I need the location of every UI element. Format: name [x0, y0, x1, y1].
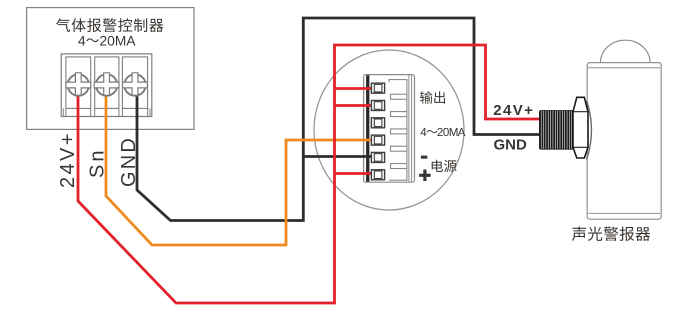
TB2 screw terminal 3: [371, 118, 384, 128]
alarm hex locknut: [573, 97, 588, 158]
label: transmitter power: [432, 160, 443, 172]
alarm gasket arc: [587, 101, 592, 160]
transmitter terminal block TB2 outer body: [364, 75, 415, 183]
TB2 screw terminal 6: [371, 170, 384, 180]
controller screw terminal 2: [94, 73, 119, 96]
TB1 bottom mounting slots: [63, 108, 150, 116]
svg-text:GND: GND: [494, 136, 528, 153]
label: transmitter range 4~20MA: [421, 128, 427, 136]
controller enclosure box: [27, 8, 194, 130]
svg-text:Sn: Sn: [86, 148, 108, 178]
label: alarm device name: [572, 226, 586, 240]
wire GND black: controller GND terminal to transmitter and alarm: [137, 18, 540, 221]
wire black branch to transmitter terminal 5 (- power): [303, 155, 372, 158]
wire Sn orange: controller Sn terminal to transmitter terminal 4: [106, 86, 372, 245]
TB2 screw terminal 2: [371, 100, 384, 110]
TB2 screw terminal 1: [371, 83, 384, 93]
label: controller title: [56, 18, 70, 32]
TB2 wire clamp comb: [389, 80, 407, 181]
TB1 terminal 1 body: [66, 57, 91, 109]
transmitter round housing outline: [314, 50, 464, 210]
svg-text:24V+: 24V+: [493, 102, 534, 119]
TB1 terminal 3 body: [122, 57, 147, 109]
label: transmitter output: [420, 91, 433, 103]
TB2 screw terminal 4: [371, 135, 384, 145]
wire 24V+ red main loop: [78, 45, 540, 303]
TB2 screw terminal 5: [371, 152, 384, 162]
svg-text:GND: GND: [118, 136, 140, 187]
controller terminal block TB1 outline: [61, 54, 152, 117]
alarm body cylinder: [587, 63, 661, 220]
controller screw terminal 1: [66, 73, 91, 96]
controller screw terminal 3: [123, 73, 148, 96]
label: controller range 4~20MA: [78, 36, 85, 45]
wire red branch to transmitter terminal 6 (+ power): [335, 172, 373, 175]
wire red branch to transmitter terminal 1 (output): [335, 87, 373, 90]
TB2 left contact rail (dark bar): [366, 75, 369, 181]
svg-text:24V+: 24V+: [57, 131, 79, 188]
alarm dome lens: [601, 40, 651, 62]
label: plus sign for power terminal: [419, 170, 431, 181]
wire red branch to transmitter terminal 2 (output): [335, 104, 373, 107]
label: minus sign for power terminal: [421, 156, 428, 159]
alarm threaded conduit fitting: [539, 110, 575, 150]
TB1 terminal 2 body: [95, 57, 119, 109]
